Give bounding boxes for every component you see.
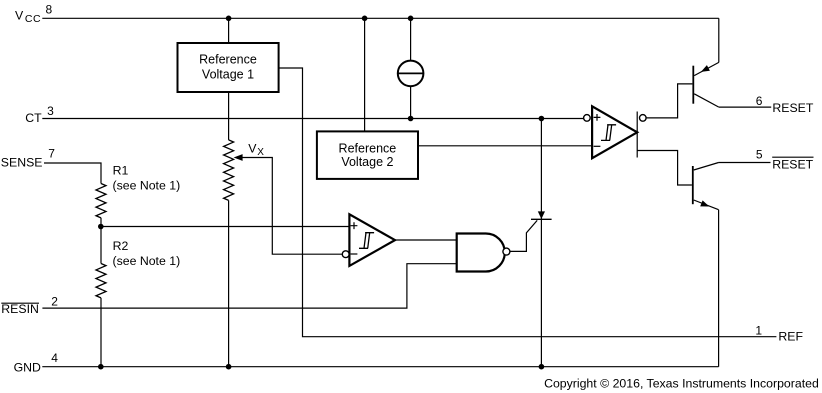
wire Q1 emitter to VCC (718, 18, 720, 62)
svg-text:Reference: Reference (199, 52, 257, 66)
svg-text:Reference: Reference (339, 141, 397, 155)
wire U2 output to Q2 base (637, 151, 692, 186)
block Reference Voltage 1 (178, 43, 279, 92)
op-amp comparator U2 (592, 106, 637, 158)
junction VCC / Reference Voltage 2 (362, 15, 368, 21)
resistor divider RX (VX tap resistor) (224, 140, 234, 200)
wire GND rail (42, 366, 718, 368)
wire RESIN rail to NAND input (42, 264, 456, 308)
svg-text:5: 5 (756, 147, 763, 161)
wire SENSE stub to R1 (44, 163, 101, 184)
svg-text:6: 6 (756, 94, 763, 108)
VX tap arrow (234, 154, 243, 161)
wire CT rail (42, 118, 583, 120)
junction GND / divider resistor (226, 364, 232, 370)
discharge transistor Q3 (531, 211, 552, 219)
svg-text:R1: R1 (113, 163, 129, 177)
svg-text:3: 3 (47, 104, 54, 118)
svg-text:Voltage 1: Voltage 1 (202, 67, 254, 81)
NAND gate U3 (457, 234, 505, 272)
wire Q2 emitter to GND (718, 210, 720, 367)
wire current source I1 bottom lead to CT (410, 86, 412, 118)
op-amp comparator U1 (349, 214, 395, 266)
junction GND / R2 (98, 364, 104, 370)
junction VCC / current source I1 (408, 15, 414, 21)
wire current source I1 top lead (410, 18, 412, 60)
transistor Q2 (NPN, RESET-bar driver) (693, 163, 719, 210)
svg-text:7: 7 (48, 147, 55, 161)
svg-text:GND: GND (14, 361, 41, 375)
wire VCC rail (42, 17, 719, 19)
wire U2 output bubble to Q1 base (646, 84, 692, 118)
wire Reference Voltage 2 output to U2 - input (418, 145, 592, 147)
wire node VSENSE divider tap to U1 + input (101, 226, 350, 228)
svg-text:CC: CC (25, 13, 41, 25)
node VX label (248, 142, 264, 158)
pin RESET-bar label with overline (772, 157, 813, 171)
wire Reference Voltage 2 top to VCC (364, 18, 366, 131)
svg-text:V: V (15, 8, 24, 22)
svg-text:REF: REF (778, 329, 803, 343)
svg-text:X: X (257, 147, 264, 158)
svg-text:SENSE: SENSE (1, 156, 43, 170)
pin RESIN label with overline (1, 302, 39, 316)
svg-text:Copyright © 2016, Texas Instru: Copyright © 2016, Texas Instruments Inco… (544, 376, 819, 390)
junction CT / current source I1 (408, 116, 414, 122)
wire discharge transistor Q3 collector-emitter CT to GND (540, 119, 542, 367)
wire node VX tap to U1 - input (236, 158, 342, 255)
svg-text:8: 8 (46, 3, 53, 17)
svg-text:CT: CT (25, 111, 42, 125)
wire REF net from Reference Voltage 1 output (279, 68, 777, 337)
svg-text:R2: R2 (113, 239, 129, 253)
block Reference Voltage 2 (317, 131, 418, 179)
svg-text:Voltage 2: Voltage 2 (341, 155, 393, 169)
wire U1 output to NAND input (395, 239, 457, 241)
wire Q1 collector to RESET pin 6 (719, 106, 771, 108)
svg-text:(see Note 1): (see Note 1) (113, 254, 181, 268)
wire R1-R2 junction segment (100, 218, 102, 264)
svg-text:RESET: RESET (772, 158, 813, 172)
svg-text:RESET: RESET (772, 101, 813, 115)
junction VCC / Reference Voltage 1 (226, 15, 232, 21)
wire NAND output to discharge transistor Q3 base (510, 220, 537, 251)
junction CT / discharge transistor Q3 (539, 116, 545, 122)
transistor Q1 (PNP, RESET driver) (693, 62, 719, 107)
wire U2 output stub (636, 112, 638, 158)
resistor R1 (96, 184, 106, 218)
inverting input bubble U1 (342, 251, 349, 258)
junction R1/R2 divider tap (98, 224, 104, 230)
current source I1 (398, 61, 424, 87)
svg-text:(see Note 1): (see Note 1) (113, 179, 181, 193)
pin VCC label (15, 8, 41, 25)
NAND output bubble (503, 248, 510, 255)
svg-text:RESIN: RESIN (1, 302, 39, 316)
svg-text:1: 1 (755, 323, 762, 337)
junction GND / discharge transistor Q3 (539, 364, 545, 370)
non-inverting input bubble U2 (584, 115, 591, 122)
wire divider resistor bottom to GND (228, 200, 230, 366)
wire Reference Voltage 1 bottom to divider resistor (228, 92, 230, 140)
svg-text:2: 2 (51, 295, 58, 309)
output bubble U2 (640, 115, 647, 122)
svg-text:V: V (248, 142, 257, 156)
resistor R2 (96, 264, 106, 298)
wire Reference Voltage 1 top to VCC (228, 18, 230, 43)
wire Q2 collector to RESET-bar pin 5 (719, 162, 771, 164)
wire R2 bottom to GND (100, 298, 102, 367)
svg-text:4: 4 (51, 351, 58, 365)
